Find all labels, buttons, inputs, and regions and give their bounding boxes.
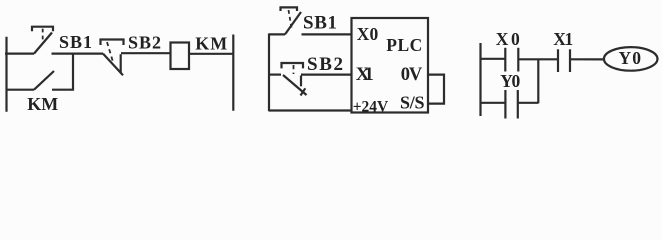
svg-text:KM: KM [195, 34, 227, 54]
svg-text:Y0: Y0 [500, 71, 520, 91]
svg-text:Y0: Y0 [619, 48, 642, 68]
svg-text:S/S: S/S [400, 93, 425, 113]
svg-text:PLC: PLC [386, 35, 422, 55]
svg-text:SB2: SB2 [128, 33, 161, 53]
svg-text:X1: X1 [553, 29, 573, 49]
svg-text:SB1: SB1 [59, 32, 92, 52]
svg-text:SB2: SB2 [307, 54, 343, 75]
svg-text:X0: X0 [496, 29, 520, 49]
svg-text:SB1: SB1 [303, 12, 337, 33]
svg-text:X1: X1 [356, 64, 374, 85]
svg-text:0V: 0V [401, 65, 423, 85]
svg-text:+24V: +24V [353, 98, 389, 115]
svg-text:KM: KM [27, 94, 58, 114]
svg-text:X0: X0 [357, 24, 379, 44]
